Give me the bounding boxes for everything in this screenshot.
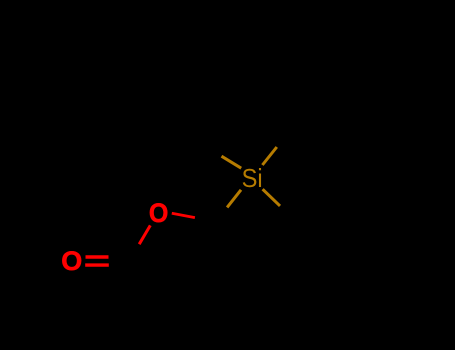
svg-text:Si: Si [242,165,263,193]
svg-text:O: O [61,246,82,276]
double bond C=O upper line [86,255,109,258]
svg-text:O: O [149,197,168,228]
bond Si-CH3 lower-right [263,189,280,206]
bond O-CH2 [172,213,195,217]
bond Si-CH3 upper-left [222,156,242,168]
bond O-C carbonyl [139,225,150,244]
bond Si-CH2 lower-left [227,190,241,208]
double bond C=O lower line [85,263,109,266]
bond Si-CH3 upper-right [262,147,276,165]
